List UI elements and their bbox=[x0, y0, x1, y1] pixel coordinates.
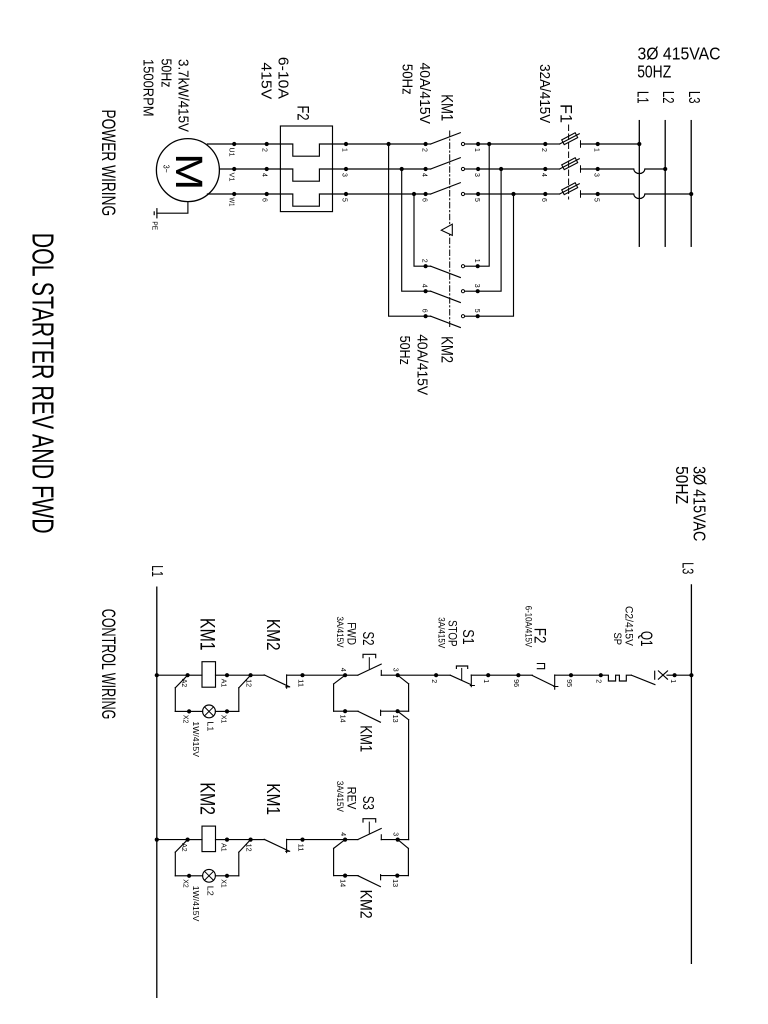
terminal X2 lamp L2 bbox=[187, 874, 191, 878]
svg-text:S3: S3 bbox=[359, 796, 376, 810]
svg-text:50Hz: 50Hz bbox=[396, 336, 413, 365]
wire KM2 output 1 to phase 3 bbox=[414, 194, 426, 266]
svg-text:1W/415V: 1W/415V bbox=[191, 721, 200, 757]
wire lamp L1 to A2 bbox=[175, 710, 189, 712]
net L1 control rail bbox=[156, 587, 158, 997]
svg-text:4: 4 bbox=[421, 284, 428, 288]
junction phase 1 to KM2 branch bbox=[487, 142, 491, 146]
svg-text:Q1: Q1 bbox=[637, 631, 656, 647]
svg-text:3A/415V: 3A/415V bbox=[335, 781, 345, 812]
svg-text:32A/415V: 32A/415V bbox=[536, 64, 553, 123]
wire Q1 to F2 aux bbox=[571, 674, 601, 676]
wire tap phase 3 with hop over L1 bbox=[598, 194, 692, 199]
svg-text:L1: L1 bbox=[148, 565, 165, 577]
wire coil KM1 to L1 rail bbox=[157, 674, 188, 676]
svg-text:14: 14 bbox=[339, 879, 346, 887]
terminal 4 S2 bbox=[343, 673, 347, 677]
svg-text:L1: L1 bbox=[633, 91, 650, 104]
svg-text:M: M bbox=[167, 153, 209, 190]
svg-text:1W/415V: 1W/415V bbox=[191, 886, 200, 922]
wire KM1 output phase 2 down bbox=[346, 168, 426, 170]
overload F2 box bbox=[280, 126, 332, 212]
terminal X1 lamp L2 bbox=[225, 874, 229, 878]
wire motor to earth bbox=[157, 202, 188, 214]
ground PE bbox=[156, 209, 158, 218]
svg-text:6: 6 bbox=[421, 198, 428, 202]
svg-text:2: 2 bbox=[540, 148, 547, 152]
svg-text:KM1: KM1 bbox=[195, 618, 218, 651]
svg-text:5: 5 bbox=[341, 198, 348, 202]
auxiliary contact KM1 13-14 bbox=[381, 710, 398, 712]
terminal 12 KM1 aux bbox=[248, 838, 252, 842]
svg-text:4: 4 bbox=[339, 668, 346, 672]
svg-text:2: 2 bbox=[595, 679, 602, 683]
terminal 14 KM2 aux latch bbox=[343, 874, 347, 878]
svg-text:3.7kW/415V: 3.7kW/415V bbox=[175, 59, 192, 132]
terminal U1 motor bbox=[232, 142, 236, 146]
contactor KM1 main contact 1 bbox=[476, 142, 480, 146]
svg-text:F1: F1 bbox=[556, 104, 575, 123]
wire F2 to motor terminal V1 bbox=[220, 168, 267, 170]
svg-text:CONTROL WIRING: CONTROL WIRING bbox=[97, 609, 118, 720]
net L1 power bus bbox=[638, 121, 640, 247]
terminal 14 KM1 aux bbox=[343, 709, 347, 713]
svg-text:S2: S2 bbox=[359, 632, 376, 646]
svg-text:2: 2 bbox=[421, 148, 428, 152]
junction F2 output 2 bbox=[265, 167, 269, 171]
svg-text:3: 3 bbox=[392, 832, 399, 836]
svg-text:A1: A1 bbox=[220, 679, 227, 688]
terminal 95 F2 bbox=[569, 673, 573, 677]
junction phase 2 output crossover bbox=[400, 167, 404, 171]
junction L3 bus to Q1 bbox=[689, 673, 693, 677]
contactor KM1 main contact 2 bbox=[476, 167, 480, 171]
wire S2 to KM2 interlock bbox=[303, 674, 346, 676]
svg-text:KM2: KM2 bbox=[357, 890, 376, 919]
interlock triangle symbol bbox=[441, 224, 452, 235]
node 3 rung 1 bbox=[396, 673, 400, 677]
svg-text:KM1: KM1 bbox=[437, 94, 456, 121]
junction F2 output 3 bbox=[265, 192, 269, 196]
terminal W1 motor bbox=[232, 192, 236, 196]
svg-text:A1: A1 bbox=[220, 843, 227, 852]
svg-text:X2: X2 bbox=[182, 715, 189, 724]
wire tap phase 1 bbox=[598, 143, 640, 145]
wire F1 to KM1 phase 3 bbox=[478, 193, 545, 195]
svg-text:3: 3 bbox=[473, 284, 480, 288]
terminal 4 S3 bbox=[343, 838, 347, 842]
terminal A2 KM1 bbox=[185, 673, 189, 677]
terminal 13 KM2 aux latch bbox=[395, 874, 399, 878]
net L3 control bus bbox=[690, 585, 692, 963]
svg-text:L3: L3 bbox=[678, 562, 695, 574]
svg-text:6-10A/415V: 6-10A/415V bbox=[524, 606, 534, 648]
pushbutton S2 FWD bbox=[381, 674, 397, 676]
lamp L1 bbox=[215, 710, 227, 712]
terminal X2 lamp L1 bbox=[187, 709, 191, 713]
junction phase 1 output crossover bbox=[387, 142, 391, 146]
junction rung 1 on L1 rail bbox=[155, 673, 159, 677]
junction F2 output 1 bbox=[265, 142, 269, 146]
svg-text:4: 4 bbox=[339, 832, 346, 836]
pushbutton S3 REV bbox=[381, 839, 397, 841]
svg-text:U1: U1 bbox=[227, 148, 234, 157]
svg-text:3: 3 bbox=[341, 173, 348, 177]
svg-text:L2: L2 bbox=[659, 91, 676, 104]
terminal 11 KM2 aux bbox=[300, 673, 304, 677]
svg-text:5: 5 bbox=[473, 198, 480, 202]
svg-text:13: 13 bbox=[391, 879, 398, 887]
lamp L2 bbox=[215, 875, 227, 877]
wire F2 to motor terminal W1 bbox=[207, 193, 266, 195]
junction rung 2 on L1 rail bbox=[155, 838, 159, 842]
terminal 12 KM2 aux bbox=[248, 673, 252, 677]
fuse F1 pole 1 bbox=[596, 142, 600, 146]
svg-text:V1: V1 bbox=[227, 173, 234, 182]
svg-text:POWER WIRING: POWER WIRING bbox=[97, 110, 118, 217]
terminal 2 S1 bbox=[434, 673, 438, 677]
svg-text:40A/415V: 40A/415V bbox=[414, 334, 431, 395]
net L2 power bus bbox=[664, 121, 666, 247]
wire terminal 4 to terminal 14 bbox=[334, 675, 346, 684]
pushbutton S1 STOP bbox=[471, 674, 488, 676]
overload F2 heater element 2 bbox=[344, 167, 348, 171]
linkage KM1-KM2 interlock (dash-dot) bbox=[449, 131, 451, 327]
svg-text:L2: L2 bbox=[205, 886, 214, 897]
svg-text:50HZ: 50HZ bbox=[672, 466, 692, 504]
terminal 1 S1 bbox=[486, 673, 490, 677]
wire phase 2 to KM2 input bbox=[478, 169, 501, 291]
wire lamp L2 to A2 KM2 bbox=[175, 875, 189, 877]
svg-text:50HZ: 50HZ bbox=[637, 62, 671, 82]
svg-text:3: 3 bbox=[593, 173, 600, 177]
motor M circle bbox=[156, 139, 219, 202]
wire phase 3 to KM2 input bbox=[478, 194, 514, 316]
svg-text:3A/415V: 3A/415V bbox=[335, 617, 345, 648]
svg-text:6: 6 bbox=[260, 198, 267, 202]
svg-text:FWD: FWD bbox=[344, 622, 358, 645]
svg-text:11: 11 bbox=[296, 844, 303, 852]
wire KM2 output 3 to phase 1 bbox=[389, 144, 426, 316]
terminal 11 KM1 aux bbox=[300, 838, 304, 842]
svg-text:X1: X1 bbox=[220, 879, 227, 888]
interlock contact KM2 11-12 bbox=[287, 674, 303, 676]
svg-text:2: 2 bbox=[430, 679, 437, 683]
svg-text:KM2: KM2 bbox=[195, 782, 218, 815]
wire S3 to KM1 interlock bbox=[303, 839, 346, 841]
junction phase 3 to KM2 branch bbox=[511, 192, 515, 196]
terminal 2 Q1 bbox=[599, 673, 603, 677]
terminal V1 motor bbox=[232, 167, 236, 171]
junction on L1 (tap phase 1) bbox=[637, 142, 641, 146]
svg-text:KM2: KM2 bbox=[437, 336, 456, 363]
svg-text:2: 2 bbox=[421, 259, 428, 263]
svg-text:3Ø 415VAC: 3Ø 415VAC bbox=[638, 44, 721, 64]
svg-text:PE: PE bbox=[151, 221, 160, 230]
terminal 1 Q1 bbox=[673, 673, 677, 677]
svg-text:2: 2 bbox=[260, 148, 267, 152]
svg-text:14: 14 bbox=[339, 715, 346, 723]
svg-text:STOP: STOP bbox=[446, 620, 460, 646]
breaker Q1 bbox=[667, 674, 675, 676]
fuse F1 pole 3 bbox=[596, 192, 600, 196]
auxiliary contact KM2 13-14 bbox=[381, 875, 398, 877]
svg-text:415V: 415V bbox=[258, 62, 275, 99]
svg-text:6: 6 bbox=[421, 309, 428, 313]
wire terminal 4 S3 to terminal 14 bbox=[334, 840, 346, 849]
svg-text:F2: F2 bbox=[294, 106, 313, 121]
svg-text:KM1: KM1 bbox=[357, 725, 376, 752]
linkage F1 (dashed) bbox=[568, 125, 570, 199]
svg-text:4: 4 bbox=[540, 173, 547, 177]
coil KM2 bbox=[216, 839, 228, 841]
svg-text:X1: X1 bbox=[220, 715, 227, 724]
svg-text:6-10A: 6-10A bbox=[275, 57, 292, 99]
terminal X1 lamp L1 bbox=[225, 709, 229, 713]
wire tap phase 2 with hop over L1 bbox=[598, 169, 666, 174]
svg-text:S1: S1 bbox=[459, 629, 476, 645]
wire F2 aux to S1 bbox=[488, 674, 518, 676]
contactor KM2 main contact 1 bbox=[476, 264, 480, 268]
svg-text:50Hz: 50Hz bbox=[158, 59, 175, 88]
svg-text:96: 96 bbox=[512, 679, 519, 687]
terminal 96 F2 bbox=[516, 673, 520, 677]
terminal A1 KM2 bbox=[225, 838, 229, 842]
junction phase 3 output crossover bbox=[412, 192, 416, 196]
svg-text:1500RPM: 1500RPM bbox=[140, 59, 157, 117]
svg-text:4: 4 bbox=[260, 173, 267, 177]
wire latch rail to KM1 aux bbox=[398, 710, 409, 712]
terminal A2 KM2 bbox=[185, 838, 189, 842]
contactor KM1 main contact 3 bbox=[476, 192, 480, 196]
wire phase 1 to KM2 input bbox=[478, 144, 490, 266]
wire KM2 output 2 to phase 2 bbox=[402, 169, 426, 291]
svg-text:DOL STARTER REV AND FWD: DOL STARTER REV AND FWD bbox=[26, 233, 61, 534]
net L3 power bus bbox=[690, 121, 692, 247]
wire F1 to KM1 phase 1 bbox=[478, 143, 545, 145]
svg-text:X2: X2 bbox=[182, 879, 189, 888]
terminal 13 KM1 aux bbox=[396, 709, 400, 713]
svg-text:L3: L3 bbox=[685, 91, 702, 104]
svg-text:3: 3 bbox=[392, 668, 399, 672]
svg-text:KM1: KM1 bbox=[263, 783, 283, 815]
wire bus to Q1 bbox=[675, 674, 692, 676]
svg-text:REV: REV bbox=[344, 787, 358, 810]
wire interlock to coil KM1 bbox=[227, 674, 251, 676]
svg-text:95: 95 bbox=[565, 679, 572, 687]
svg-text:3A/415V: 3A/415V bbox=[436, 617, 446, 648]
junction phase 2 to KM2 branch bbox=[499, 167, 503, 171]
interlock contact KM1 11-12 bbox=[287, 839, 303, 841]
junction on L3 (tap phase 3) bbox=[689, 192, 693, 196]
terminal A1 KM1 bbox=[225, 673, 229, 677]
svg-text:4: 4 bbox=[421, 173, 428, 177]
overload F2 heater element 1 bbox=[344, 142, 348, 146]
svg-text:5: 5 bbox=[473, 309, 480, 313]
wire KM1 output phase 1 down bbox=[346, 143, 426, 145]
svg-text:50Hz: 50Hz bbox=[398, 64, 415, 95]
svg-text:1: 1 bbox=[669, 679, 676, 683]
svg-text:11: 11 bbox=[296, 679, 303, 687]
wire node 12 to lamp L1 bbox=[239, 675, 251, 688]
junction on L2 (tap phase 2) bbox=[663, 167, 667, 171]
svg-text:C2/415V: C2/415V bbox=[623, 606, 635, 647]
overload F2 heater element 3 bbox=[344, 192, 348, 196]
contactor KM2 main contact 3 bbox=[476, 314, 480, 318]
fuse F1 pole 2 bbox=[596, 167, 600, 171]
svg-text:6: 6 bbox=[540, 198, 547, 202]
svg-text:5: 5 bbox=[593, 198, 600, 202]
wire node 13 to rung 2 bbox=[398, 712, 409, 720]
contactor KM2 main contact 2 bbox=[476, 289, 480, 293]
svg-text:KM2: KM2 bbox=[263, 619, 283, 651]
wire KM1 output phase 3 down bbox=[346, 193, 426, 195]
svg-text:1: 1 bbox=[593, 148, 600, 152]
wire node 3 to latch rail bbox=[398, 675, 409, 684]
wire interlock to coil KM2 bbox=[227, 839, 251, 841]
svg-text:W1: W1 bbox=[227, 198, 234, 207]
svg-text:SP: SP bbox=[611, 633, 623, 646]
wire S1 to S2 bbox=[398, 674, 436, 676]
svg-text:1: 1 bbox=[473, 148, 480, 152]
svg-text:40A/415V: 40A/415V bbox=[416, 63, 433, 125]
svg-text:3~: 3~ bbox=[162, 165, 171, 173]
overload trip contact F2 95-96 bbox=[555, 674, 571, 676]
svg-text:1: 1 bbox=[473, 259, 480, 263]
wire node 3 rung2 to latch bbox=[398, 840, 409, 849]
node 3 rung 2 bbox=[396, 838, 400, 842]
wire F2 to motor terminal U1 bbox=[207, 143, 266, 145]
wire F1 to KM1 phase 2 bbox=[478, 168, 545, 170]
wire coil KM2 to L1 rail bbox=[157, 839, 188, 841]
svg-text:13: 13 bbox=[391, 715, 398, 723]
wire node 12 to lamp L2 bbox=[239, 840, 251, 853]
svg-text:L1: L1 bbox=[205, 721, 214, 732]
svg-text:1: 1 bbox=[341, 148, 348, 152]
svg-text:1: 1 bbox=[482, 679, 489, 683]
svg-text:3: 3 bbox=[473, 173, 480, 177]
coil KM1 bbox=[216, 674, 228, 676]
